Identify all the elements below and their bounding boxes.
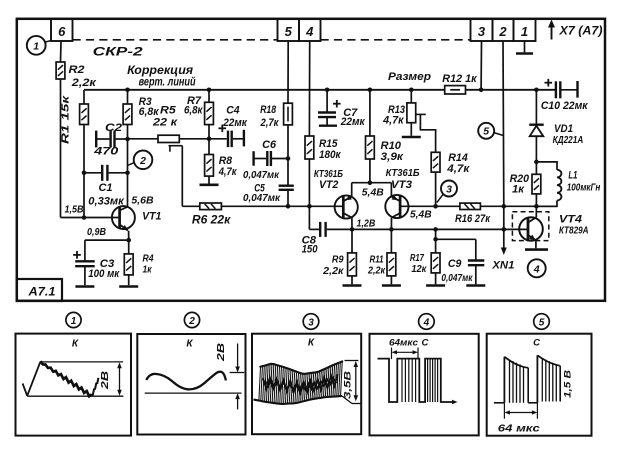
capacitor C2 <box>95 131 97 148</box>
wire R20 to node <box>535 194 537 206</box>
svg-text:0,047мк: 0,047мк <box>441 273 473 284</box>
resistor R2 <box>56 62 65 79</box>
transistor VT4 dashed housing <box>512 212 548 241</box>
test point 3 <box>441 181 457 197</box>
pin box 2 <box>493 19 514 41</box>
waveform 3 hatched band <box>259 367 261 400</box>
resistor R17 <box>435 239 437 253</box>
svg-text:Размер: Размер <box>388 71 431 83</box>
resistor R8 <box>205 155 214 177</box>
svg-text:2: 2 <box>188 316 195 327</box>
svg-text:R9: R9 <box>332 254 344 266</box>
svg-text:4: 4 <box>533 263 540 275</box>
svg-text:КТ829А: КТ829А <box>559 225 589 237</box>
wire R1 to C1 node <box>83 125 85 218</box>
wire R15 to VT2 base and C8 <box>308 159 310 229</box>
svg-text:1: 1 <box>71 316 77 327</box>
ground under R4 <box>128 275 130 285</box>
waveform 1 amplitude arrow 2V <box>119 365 121 393</box>
waveform 1 top reference line <box>40 361 123 363</box>
svg-text:3: 3 <box>308 317 314 328</box>
svg-text:22мк: 22мк <box>340 116 366 128</box>
test point 4 <box>528 259 546 277</box>
svg-text:R6 22к: R6 22к <box>192 215 232 227</box>
svg-text:1: 1 <box>33 40 39 52</box>
wire pin5 to R18 <box>287 41 289 103</box>
waveform 1 baseline <box>27 395 123 397</box>
svg-text:64мкс: 64мкс <box>389 337 418 347</box>
collector row wire C8 to XN1 node <box>309 228 319 230</box>
resistor R9 <box>351 229 353 253</box>
waveform 2 amplitude arrow 2V <box>237 344 239 371</box>
dashed module boundary line <box>73 39 278 41</box>
pin box 6 <box>51 19 73 41</box>
resistor R14 <box>431 152 440 172</box>
svg-text:С9: С9 <box>448 258 462 270</box>
waveform 5 circled number <box>534 314 550 330</box>
svg-text:R16 27к: R16 27к <box>455 213 491 225</box>
VT4 emitter to ground <box>535 241 537 249</box>
svg-text:2,7к: 2,7к <box>260 117 280 129</box>
svg-text:3,9к: 3,9к <box>381 151 405 163</box>
capacitor C5 <box>279 184 294 186</box>
wire pin2 to VT4 base <box>502 41 505 206</box>
waveform 4 period marks <box>391 348 393 360</box>
wire R6 to VT2 base <box>221 205 343 207</box>
svg-text:VT2: VT2 <box>319 179 338 191</box>
supply rail wire <box>84 89 445 91</box>
wire pin6 to R2 <box>60 41 63 62</box>
waveform 1 circled number <box>66 312 81 327</box>
resistor R20 <box>532 174 541 194</box>
svg-text:4,7к: 4,7к <box>382 115 405 127</box>
svg-text:верт. линий: верт. линий <box>139 77 196 89</box>
svg-text:6,8к: 6,8к <box>184 105 204 117</box>
waveform box 3 frame <box>252 334 361 435</box>
wire R18 to C6 node <box>287 125 289 185</box>
waveform 3 bottom tick <box>342 396 352 404</box>
wire R16 to VT4 node <box>480 205 557 207</box>
svg-text:С10 22мк: С10 22мк <box>541 100 589 112</box>
diode VD1 <box>535 90 537 125</box>
svg-text:3: 3 <box>446 183 452 195</box>
svg-text:5,6В: 5,6В <box>131 194 154 206</box>
wire R10 to emitter bracket <box>369 159 371 183</box>
pin box 4 <box>299 19 321 41</box>
wire R14 to base row <box>435 172 437 206</box>
svg-text:С6: С6 <box>262 139 277 151</box>
wire R3 to VT1 collector <box>127 125 129 208</box>
svg-text:2: 2 <box>139 155 146 167</box>
svg-text:R12 1к: R12 1к <box>442 73 478 85</box>
VT3 base wire to R16 row <box>400 205 460 207</box>
wire R6 row <box>182 205 200 207</box>
svg-text:100мкГн: 100мкГн <box>567 183 601 194</box>
svg-text:180к: 180к <box>319 149 342 161</box>
svg-text:R1 15к: R1 15к <box>60 95 72 144</box>
node R7/C4/R5 <box>207 137 212 142</box>
transistor VT3 <box>385 195 408 218</box>
R5 wiper tap <box>169 145 183 147</box>
svg-text:С1: С1 <box>99 182 113 194</box>
pin box 3 <box>471 19 493 41</box>
resistor R4 <box>128 240 130 254</box>
svg-text:2В: 2В <box>216 343 227 362</box>
capacitor C6 <box>252 151 254 166</box>
svg-text:ХN1: ХN1 <box>491 259 514 271</box>
transistor VT2 <box>335 195 358 218</box>
svg-text:3,5В: 3,5В <box>343 371 354 399</box>
waveform 3 circled number <box>303 314 319 330</box>
svg-text:КТ361Б: КТ361Б <box>386 167 421 179</box>
waveform box 2 frame <box>137 334 245 435</box>
emitter bracket VT2 VT3 <box>352 182 392 184</box>
waveform 4 circled number <box>419 314 435 330</box>
R13 wiper tap to R14 <box>416 113 426 115</box>
svg-text:0,047мк: 0,047мк <box>243 170 280 181</box>
svg-text:L1: L1 <box>568 169 577 181</box>
test point 1 <box>27 36 46 55</box>
svg-text:12к: 12к <box>411 263 427 275</box>
svg-text:R18: R18 <box>260 104 277 116</box>
ground under R11 <box>390 276 392 284</box>
module label box A7.1 <box>17 279 62 301</box>
waveform 2 circled number <box>184 312 199 327</box>
wire pin3 to rail <box>480 41 482 90</box>
svg-text:5: 5 <box>285 24 293 39</box>
svg-text:2: 2 <box>498 24 507 39</box>
resistor R10 <box>368 88 373 93</box>
resistor R16 <box>460 203 481 209</box>
svg-text:5: 5 <box>539 317 545 328</box>
svg-text:1,5В: 1,5В <box>65 204 84 216</box>
svg-text:22 к: 22 к <box>152 117 179 129</box>
svg-text:4: 4 <box>423 317 430 328</box>
node R17 C9 <box>433 227 438 232</box>
ground under pin1 <box>524 41 526 52</box>
wire R2 to VT1 base row <box>60 79 62 218</box>
svg-text:6: 6 <box>58 24 66 39</box>
waveform box 5 frame <box>487 334 592 436</box>
waveform 3 top tick <box>345 360 359 362</box>
resistor R1 <box>83 90 85 104</box>
svg-text:64 мкс: 64 мкс <box>498 422 540 434</box>
svg-text:5: 5 <box>483 126 489 138</box>
svg-text:2В: 2В <box>100 371 111 390</box>
capacitor C1 <box>101 165 103 181</box>
resistor R15 <box>305 136 314 159</box>
svg-text:К: К <box>72 339 79 350</box>
svg-text:Х7 (А7): Х7 (А7) <box>558 26 602 38</box>
VT2 collector wire <box>351 218 353 230</box>
pin box 5 <box>278 19 300 41</box>
svg-text:С: С <box>422 338 429 349</box>
svg-text:Коррекция: Коррекция <box>127 65 193 77</box>
ground under R17 <box>435 273 437 284</box>
wire R5 to R7 node <box>179 138 209 140</box>
resistor R12 <box>445 86 466 94</box>
wire VT1 base row <box>61 217 120 219</box>
svg-text:К: К <box>308 338 315 349</box>
svg-text:VT3: VT3 <box>391 179 412 191</box>
connector label X7(A7) with arrow <box>551 25 553 40</box>
waveform 5 period arrow 64 mks <box>503 403 505 419</box>
wire C2 node to R5 <box>128 138 159 140</box>
capacitor C10 electrolytic <box>534 88 539 93</box>
capacitor C7 electrolytic <box>325 88 330 93</box>
capacitor C8 <box>319 222 321 237</box>
svg-text:5,4В: 5,4В <box>362 186 384 198</box>
ground under C9 <box>466 284 485 287</box>
svg-text:0,047мк: 0,047мк <box>243 193 281 204</box>
svg-text:1: 1 <box>521 24 528 39</box>
trimmer R13 <box>409 88 414 93</box>
waveform 4 pulse train <box>378 359 455 402</box>
svg-text:2,2к: 2,2к <box>322 265 344 277</box>
resistor R3 <box>125 88 130 93</box>
waveform 5 burst 2 <box>536 355 538 403</box>
svg-text:1к: 1к <box>143 263 153 275</box>
svg-text:470: 470 <box>93 145 119 157</box>
wire emitter node row <box>85 239 129 241</box>
svg-text:4,7к: 4,7к <box>218 166 238 178</box>
svg-text:R5: R5 <box>160 105 177 117</box>
svg-text:VT1: VT1 <box>142 211 161 223</box>
svg-text:К: К <box>186 339 193 350</box>
ground under R9 <box>351 276 353 284</box>
svg-text:С4: С4 <box>226 104 239 116</box>
waveform 2 baseline <box>145 392 242 394</box>
resistor R18 <box>284 103 293 125</box>
ground under R13 <box>410 123 412 136</box>
VT3 collector wire <box>390 218 392 230</box>
resistor R6 <box>200 203 222 210</box>
waveform 3 amplitude arrow 3,5V <box>355 363 357 399</box>
waveform box 1 frame <box>16 334 132 436</box>
wire C5 to R6 row <box>287 190 289 207</box>
svg-text:3: 3 <box>478 24 486 39</box>
wire pin4 to R15 column <box>308 41 310 136</box>
ground under C3 <box>75 285 94 288</box>
test point 5 <box>478 123 494 139</box>
svg-text:СКР-2: СКР-2 <box>93 45 143 59</box>
svg-text:5,4В: 5,4В <box>410 209 432 221</box>
svg-text:100 мк: 100 мк <box>88 268 120 280</box>
svg-text:R2: R2 <box>69 64 85 76</box>
svg-text:R10: R10 <box>381 140 402 152</box>
waveform 2 reference line <box>230 372 245 374</box>
resistor R11 <box>390 229 392 253</box>
waveform box 4 frame <box>370 334 479 436</box>
pin box 1 <box>514 19 536 41</box>
resistor R7 <box>207 88 212 93</box>
wire VD1 to R20 L1 node <box>535 136 537 174</box>
transistor VT4 <box>519 217 543 241</box>
waveform 2 sine <box>146 372 226 390</box>
transistor VT1 <box>112 206 135 229</box>
VT4 collector wire <box>535 206 537 217</box>
capacitor C4 <box>209 138 227 140</box>
svg-text:С2: С2 <box>105 122 122 134</box>
output arrow XN1 <box>502 227 507 232</box>
svg-text:1,2В: 1,2В <box>357 217 376 229</box>
svg-text:0,9В: 0,9В <box>87 226 106 238</box>
test point 2 <box>134 151 153 170</box>
waveform 5 baseline <box>494 402 505 404</box>
inductor L1 <box>536 162 557 170</box>
svg-text:4: 4 <box>305 24 314 39</box>
main schematic frame <box>17 19 605 301</box>
svg-text:0,33мк: 0,33мк <box>88 195 125 207</box>
svg-text:22мк: 22мк <box>222 117 248 129</box>
svg-text:2,2к: 2,2к <box>367 265 385 277</box>
svg-text:1к: 1к <box>512 183 525 195</box>
trimmer R5 <box>158 135 179 142</box>
svg-text:4,7к: 4,7к <box>446 163 470 175</box>
capacitor C3 electrolytic <box>84 240 86 261</box>
ground under R8 <box>208 176 210 185</box>
svg-text:А7.1: А7.1 <box>27 287 55 299</box>
svg-text:КД221А: КД221А <box>553 134 584 146</box>
svg-text:2,2к: 2,2к <box>71 77 98 89</box>
waveform 1 sawtooth <box>23 384 28 396</box>
VT1 emitter wire <box>128 231 130 240</box>
svg-text:1,5 В: 1,5 В <box>563 370 574 398</box>
capacitor C9 <box>436 238 476 240</box>
wire R5 wiper to R6 row <box>181 146 183 207</box>
waveform 5 burst 1 <box>503 357 505 403</box>
svg-text:150: 150 <box>302 244 319 256</box>
svg-text:С: С <box>533 338 540 349</box>
